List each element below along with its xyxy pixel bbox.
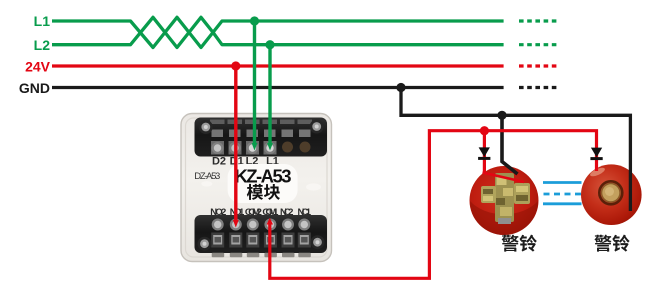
wire GND branch into left bell <box>502 115 518 174</box>
module corner screw bottom-right <box>311 235 325 249</box>
module nameplate <box>228 164 298 203</box>
node on L2 <box>265 40 274 49</box>
node red branch <box>480 126 489 135</box>
module top terminal strip <box>195 118 328 157</box>
left bell (alarm bell, opened) <box>470 166 539 235</box>
bell link line middle (dashed) <box>544 193 582 196</box>
node on 24V <box>231 61 240 70</box>
module bottom terminal strip <box>195 215 328 257</box>
module corner screw bottom-left <box>198 237 212 251</box>
label 警铃 (right) <box>594 235 611 252</box>
svg-text:GND: GND <box>19 80 50 96</box>
side notch right <box>306 183 321 190</box>
bottom terminal screws <box>212 219 311 231</box>
bell link line top <box>543 181 582 184</box>
dashed continuation L1 <box>519 19 557 22</box>
wire red lead across left bell <box>483 173 525 183</box>
node GND branch <box>497 111 506 120</box>
svg-text:KZ-A53: KZ-A53 <box>235 165 292 186</box>
bell link line bottom <box>543 202 582 205</box>
wire from L1 to module terminal L2 <box>253 21 256 144</box>
svg-text:DZ-A53: DZ-A53 <box>194 171 220 182</box>
label 警铃 (left) <box>502 235 519 252</box>
wire GND drop and run to right bell <box>401 88 630 212</box>
svg-text:L2: L2 <box>34 37 51 53</box>
dashed continuation GND <box>519 86 557 89</box>
node on GND <box>396 83 405 92</box>
dashed continuation L2 <box>519 43 557 46</box>
wire red branch into left bell <box>483 131 486 173</box>
wire COM1 loop to bells <box>270 131 597 279</box>
arrow tip red COM1 <box>267 218 273 225</box>
pin labels D2 D1 L2 L1 <box>212 156 279 168</box>
arrow tip green L2 <box>252 143 258 151</box>
label 模块 <box>247 184 263 200</box>
arrow tip red NO1 <box>233 220 239 228</box>
svg-text:L1: L1 <box>34 13 51 29</box>
pin labels NO2 NO1 COM2 COM1 NC2 NC1 <box>210 207 311 218</box>
module corner screw top-right <box>310 120 324 134</box>
wire GND bus <box>52 86 504 89</box>
module KZ-A53 body <box>181 114 332 262</box>
diode at left bell <box>478 147 490 158</box>
side notch left <box>201 181 212 186</box>
diode at right bell <box>590 148 602 159</box>
wire 24V bus <box>52 64 504 67</box>
wire from 24V to module terminal NO1 <box>234 66 237 221</box>
node on L1 <box>250 16 259 25</box>
arrow tip green L1 <box>267 143 273 151</box>
wire from L2 to module terminal L1 <box>268 45 271 144</box>
wire L1 bus with twisted pair <box>52 17 504 47</box>
dashed continuation 24V <box>519 64 557 67</box>
svg-text:24V: 24V <box>25 59 51 75</box>
module corner screw top-left <box>199 120 213 134</box>
right bell (alarm bell) <box>581 164 642 225</box>
top terminal screws <box>211 141 277 155</box>
wire L2 bus with twisted pair <box>52 17 504 47</box>
svg-text:D2: D2 <box>212 156 226 168</box>
